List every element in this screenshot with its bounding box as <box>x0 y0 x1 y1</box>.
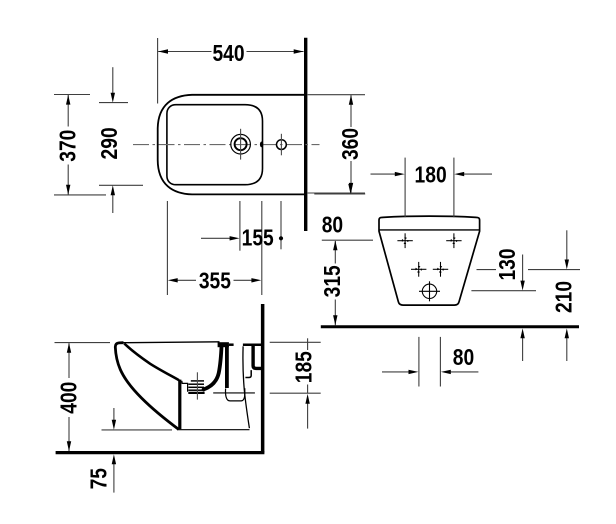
arrow 75 bottom (outside, up) <box>112 454 116 464</box>
wall (side view, thick vertical) <box>261 304 265 453</box>
svg-text:290: 290 <box>96 127 122 159</box>
dim 155 line + dot <box>201 237 235 239</box>
dimension labels side <box>56 351 317 489</box>
svg-text:155: 155 <box>242 225 274 251</box>
svg-text:360: 360 <box>337 128 363 160</box>
reference tick on basin edge <box>260 142 263 148</box>
flange lower step <box>245 370 251 377</box>
arrow 355 right <box>251 278 261 282</box>
dim 80 (bottom) extension lines <box>418 337 420 387</box>
svg-text:355: 355 <box>199 268 231 294</box>
dim 400 extension line (top) <box>55 342 111 344</box>
basin inner curve (side) <box>124 344 179 381</box>
mounting level line inside body <box>213 392 255 394</box>
rear body right edge <box>243 346 249 428</box>
dim 355 line <box>172 279 196 281</box>
dim 210 arrow shafts <box>566 230 568 264</box>
dim 360 line <box>350 95 352 127</box>
trap pocket outline <box>225 388 244 401</box>
mount flange band (L to wall) <box>253 346 261 368</box>
wall (plan view, thick vertical) <box>304 38 307 231</box>
dim 185 lower shaft <box>307 399 309 429</box>
dot 155 right <box>279 236 283 240</box>
svg-text:400: 400 <box>56 382 82 414</box>
trap front band (S-curve) <box>204 345 222 390</box>
dim 360 extension lines <box>308 94 365 96</box>
dim 185 line <box>307 338 309 350</box>
dim 370 line <box>67 95 69 127</box>
dim 80 (bottom) line <box>382 371 414 373</box>
arrow 80 left (outside, pointing right) <box>409 370 419 374</box>
fixing hole mid-right centermark <box>433 262 448 277</box>
arrow 315 top (pointing up) <box>333 240 337 250</box>
dim 370 extension lines <box>54 94 90 96</box>
arrow 210 top (outside, down at holes line) <box>565 260 569 270</box>
svg-text:80: 80 <box>453 344 474 370</box>
svg-text:180: 180 <box>415 162 447 188</box>
bidet bottom line <box>177 429 250 431</box>
bidet front outer profile (beak) <box>115 343 178 430</box>
faucet hole outer circle <box>231 134 251 154</box>
arrowheads side <box>67 343 310 464</box>
drain centerline (side) <box>196 372 198 399</box>
arrow 290 top (outside, pointing down) <box>111 93 115 103</box>
svg-text:130: 130 <box>494 248 520 280</box>
drain ladder rungs <box>191 380 204 382</box>
svg-text:80: 80 <box>322 212 343 238</box>
arrow 180 right (pointing left) <box>454 172 464 176</box>
dim 130 extension line (drain level) <box>471 290 536 292</box>
faucet hole inner circle <box>235 138 247 150</box>
fixing hole top-left centermark <box>397 233 412 248</box>
drain hole circle <box>419 281 440 301</box>
dim 360 bottom ext (shared, right of wall) also 80 upper ref <box>314 193 365 195</box>
inner basin outline (plan) <box>167 105 263 185</box>
fixing hole mid-left centermark <box>411 262 426 277</box>
bidet outer body outline (plan) <box>158 95 306 195</box>
svg-text:210: 210 <box>551 281 577 313</box>
dim 355 extension lines <box>166 201 168 295</box>
arrow 540 left <box>158 49 168 53</box>
rear top thick line with gap <box>229 343 234 346</box>
svg-text:75: 75 <box>86 468 112 489</box>
dimension labels plan <box>55 40 364 294</box>
rim line (side) <box>124 341 220 344</box>
arrow 290 bottom (outside, pointing up) <box>111 185 115 195</box>
arrowheads plan <box>66 49 353 282</box>
svg-text:185: 185 <box>291 351 317 383</box>
arrow 80 right (outside, pointing left) <box>441 370 451 374</box>
arrow 155 left (pointing right) <box>230 236 240 240</box>
svg-text:540: 540 <box>212 40 244 66</box>
fixing hole marks <box>397 233 461 301</box>
faucet vertical centerline <box>240 129 242 160</box>
trap rear band (vertical) <box>225 345 229 388</box>
rear body outline <box>379 216 480 305</box>
dim 185 extension lines <box>270 341 321 343</box>
dimension labels rear <box>319 162 577 371</box>
horizontal centerline (dash-dot) <box>133 144 320 146</box>
arrow 315 bottom (pointing down) <box>333 315 337 325</box>
arrow 370 bottom <box>66 185 70 195</box>
arrow 360 top <box>349 95 353 105</box>
dim 315 top extension line <box>322 239 373 241</box>
svg-text:315: 315 <box>319 265 345 297</box>
dim 540 line <box>158 51 211 53</box>
dim 130 arrow shafts <box>522 255 524 286</box>
trap top junction <box>218 342 229 347</box>
arrow 400 top <box>67 343 71 353</box>
sump step <box>182 381 188 392</box>
dim 75 arrow shafts <box>113 408 115 425</box>
arrow 370 top <box>66 95 70 105</box>
dim 290 extension lines <box>99 102 128 104</box>
arrow 75 top (outside, down) <box>112 420 116 430</box>
arrow 400 bottom <box>67 441 71 451</box>
dim 210 extension line (holes level) <box>477 269 497 271</box>
arrow 355 left <box>168 278 178 282</box>
dim 180 line (outside arrows) <box>371 173 401 175</box>
arrow 185 bottom (outside, up) <box>305 394 309 404</box>
sump front wall (thick vertical) <box>178 380 181 430</box>
arrow 180 left (pointing right) <box>395 172 405 176</box>
rear floor line (thick) <box>321 325 579 328</box>
dim 540 extension line (left) <box>157 38 159 104</box>
rear rim band line <box>379 229 480 231</box>
dim 315 line <box>334 241 336 264</box>
arrow 360dn shared (pointing down at 193.9) <box>348 184 352 194</box>
dim 290 arrow shafts (outside) <box>112 67 114 98</box>
arrow 360 bottom <box>349 183 353 193</box>
arrow 130 top (outside, down at drain line) <box>520 281 524 291</box>
arrow 540 right <box>294 49 304 53</box>
dim 75 extension line <box>102 429 173 431</box>
small hole vertical centerline <box>280 134 282 156</box>
small hole circle (overflow) <box>277 140 287 150</box>
arrow 210 bottom (outside, up at floor) <box>565 328 569 338</box>
dim 400 line <box>68 343 70 378</box>
svg-text:370: 370 <box>55 130 81 162</box>
floor (side view, thick horizontal) <box>56 451 265 454</box>
fixing hole top-right centermark <box>446 233 461 248</box>
dim 155 extension lines <box>239 201 241 251</box>
dim 180 extension lines <box>404 158 406 218</box>
arrowheads rear <box>333 172 569 374</box>
arrow 130 bottom (outside, up at floor) <box>520 328 524 338</box>
